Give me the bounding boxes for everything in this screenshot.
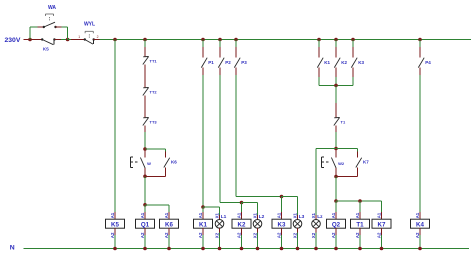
svg-text:TT2: TT2 — [150, 89, 158, 94]
svg-text:L1: L1 — [221, 214, 227, 220]
svg-text:KS: KS — [43, 47, 49, 52]
svg-text:K3: K3 — [278, 221, 286, 228]
svg-text:K4: K4 — [416, 221, 424, 228]
svg-text:Q1: Q1 — [141, 221, 150, 228]
svg-text:X2: X2 — [253, 232, 258, 238]
svg-text:A2: A2 — [164, 232, 169, 238]
svg-text:K6: K6 — [165, 221, 173, 228]
svg-text:K3: K3 — [358, 60, 364, 65]
svg-text:A1: A1 — [377, 212, 382, 218]
svg-text:X1: X1 — [311, 212, 316, 218]
svg-text:K1: K1 — [324, 60, 330, 65]
svg-text:TT3: TT3 — [150, 119, 158, 124]
svg-text:T1: T1 — [356, 221, 364, 228]
svg-text:A1: A1 — [237, 212, 242, 218]
svg-text:K1: K1 — [199, 221, 207, 228]
svg-text:A1: A1 — [331, 212, 336, 218]
svg-text:WYL: WYL — [84, 22, 95, 28]
svg-text:X2: X2 — [293, 232, 298, 238]
svg-text:TT1: TT1 — [150, 58, 158, 63]
svg-text:A2: A2 — [415, 232, 420, 238]
svg-text:W: W — [147, 161, 151, 166]
svg-text:A2: A2 — [331, 232, 336, 238]
svg-text:A2: A2 — [237, 232, 242, 238]
svg-text:A1: A1 — [110, 212, 115, 218]
svg-text:A2: A2 — [110, 232, 115, 238]
svg-text:K2: K2 — [238, 221, 246, 228]
svg-text:X1: X1 — [253, 212, 258, 218]
svg-text:N: N — [10, 245, 15, 252]
svg-text:A2: A2 — [277, 232, 282, 238]
svg-text:K2: K2 — [341, 60, 347, 65]
svg-text:P2: P2 — [225, 60, 231, 65]
svg-text:A1: A1 — [355, 212, 360, 218]
svg-text:P3: P3 — [241, 60, 247, 65]
svg-text:A1: A1 — [164, 212, 169, 218]
svg-text:X1: X1 — [215, 212, 220, 218]
svg-text:K7: K7 — [378, 221, 386, 228]
svg-text:L2: L2 — [259, 214, 265, 220]
svg-text:K7: K7 — [363, 160, 369, 165]
svg-text:A1: A1 — [140, 212, 145, 218]
svg-text:X2: X2 — [311, 232, 316, 238]
svg-text:A2: A2 — [198, 232, 203, 238]
svg-text:L3: L3 — [299, 214, 305, 220]
svg-text:X2: X2 — [215, 232, 220, 238]
svg-text:X1: X1 — [293, 212, 298, 218]
svg-text:A1: A1 — [415, 212, 420, 218]
svg-text:P1: P1 — [208, 60, 214, 65]
svg-text:A2: A2 — [355, 232, 360, 238]
svg-text:A1: A1 — [198, 212, 203, 218]
svg-text:1: 1 — [78, 35, 80, 39]
svg-text:K5: K5 — [111, 221, 119, 228]
svg-text:2: 2 — [97, 35, 99, 39]
svg-text:T1: T1 — [341, 119, 346, 124]
svg-text:A2: A2 — [140, 232, 145, 238]
svg-text:A2: A2 — [377, 232, 382, 238]
svg-text:P4: P4 — [425, 60, 431, 65]
svg-text:K6: K6 — [171, 160, 177, 165]
svg-text:Q2: Q2 — [332, 221, 341, 228]
svg-text:Lz: Lz — [317, 214, 323, 220]
svg-text:WA: WA — [48, 5, 56, 11]
svg-text:W2: W2 — [338, 161, 345, 166]
svg-text:230V: 230V — [5, 37, 21, 44]
svg-text:A1: A1 — [277, 212, 282, 218]
